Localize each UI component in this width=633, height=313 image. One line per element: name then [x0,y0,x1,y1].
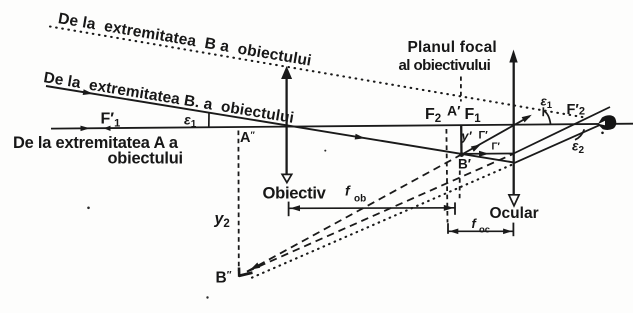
f_ob dimension line [289,202,455,217]
dotted virtual ray B'' to ocular [252,164,514,278]
arrowhead on chief ray mid-span [355,134,366,141]
label Ocular [490,205,539,222]
svg-text:F1: F1 [465,106,482,125]
label F2 [425,106,441,125]
svg-text:A′: A′ [447,103,461,119]
svg-text:Ocular: Ocular [490,205,539,222]
label B'' [216,270,232,287]
svg-text:De la extremitatea B. a obie: De la extremitatea B. a obiectului [42,69,295,127]
svg-text:F′2: F′2 [567,102,585,118]
label epsilon1 (left) [184,112,197,131]
svg-text:Planul focal: Planul focal [408,39,497,56]
svg-text:f: f [472,216,478,231]
label B' [458,157,471,172]
optical axis [51,124,633,129]
arrowhead on B''-B' ray near B'' (pointing down-left) [249,262,261,272]
dashed virtual ray B'' to B' [247,155,461,272]
svg-text:Γ′: Γ′ [492,142,501,153]
svg-text:al obiectivului: al obiectivului [399,57,491,74]
f_oc dimension line [448,223,513,237]
svg-text:Obiectiv: Obiectiv [263,184,327,203]
svg-text:B″: B″ [216,270,232,287]
arrowhead on axis (ray from A) [80,126,90,132]
svg-text:ε1: ε1 [541,94,553,112]
intermediate image segment A'B' (solid) [460,126,463,157]
svg-text:ε2: ε2 [572,139,584,157]
dashes below B' down to f_ob tick [459,171,461,202]
F'1 focal point marker (left-pointing) [104,126,111,131]
label epsilon2 [572,139,584,157]
epsilon1 angle tick (left) [208,113,210,128]
svg-text:ob: ob [354,194,366,205]
label Gamma' lower [492,142,501,153]
svg-text:F2: F2 [425,106,441,125]
dotted ray from extremity B (upper) [50,27,585,118]
dashed vertical at A'' (y2 line) [237,131,239,272]
B'' corner foot [238,268,241,277]
svg-text:y′: y′ [461,130,473,144]
dashed vertical below F2 down to f_oc tick [446,129,447,223]
label Gamma' upper [479,130,489,142]
label F1 [465,106,482,125]
label f_ob [345,183,366,205]
label A' [447,103,461,119]
B' convergence point [459,152,464,157]
label A'' [240,130,255,146]
label epsilon1 (right) [541,94,553,112]
label: De la extremitatea A a [13,134,183,168]
label F'1 [101,111,121,130]
rotated label: De la extremitatea B. a obiectului (lower) [42,69,295,127]
solid chief ray from extremity B [46,86,514,162]
label Obiectiv [263,184,327,203]
label F'2 [567,102,585,118]
objective lens double arrow [281,66,292,183]
svg-text:A″: A″ [240,130,255,146]
epsilon2 angle arc [575,129,584,140]
exit ray lower (from ocular to eye) [514,120,612,164]
svg-text:ε1: ε1 [184,112,197,131]
svg-text:y2: y2 [214,211,230,231]
stray ink specks [87,150,326,299]
steep ray B' through ocular centre (extended) [462,116,530,154]
svg-text:obiectului: obiectului [108,150,183,168]
dashed virtual ray B'' to ocular [247,154,514,272]
svg-text:oc: oc [479,225,490,236]
focal plane dashes above axis [460,77,462,102]
eye symbol [598,115,616,134]
epsilon1 angle tick and arc (right) [542,107,544,116]
svg-text:B′: B′ [458,157,471,172]
svg-text:De la extremitatea B a obie: De la extremitatea B a obiectului [57,10,313,70]
svg-text:f: f [345,183,351,199]
label f_oc [472,216,491,236]
label y' [461,130,473,144]
label Planul focal [399,39,497,74]
rotated label: De la extremitatea B a obiectului (upper) [57,10,313,70]
horizontal ray B' to ocular [462,153,514,155]
exit ray upper (from ocular to eye) [514,107,610,154]
arrowhead on chief ray near start [83,89,94,96]
ocular lens double arrow [509,50,519,206]
svg-text:F′1: F′1 [101,111,121,130]
label y2 [214,211,230,231]
